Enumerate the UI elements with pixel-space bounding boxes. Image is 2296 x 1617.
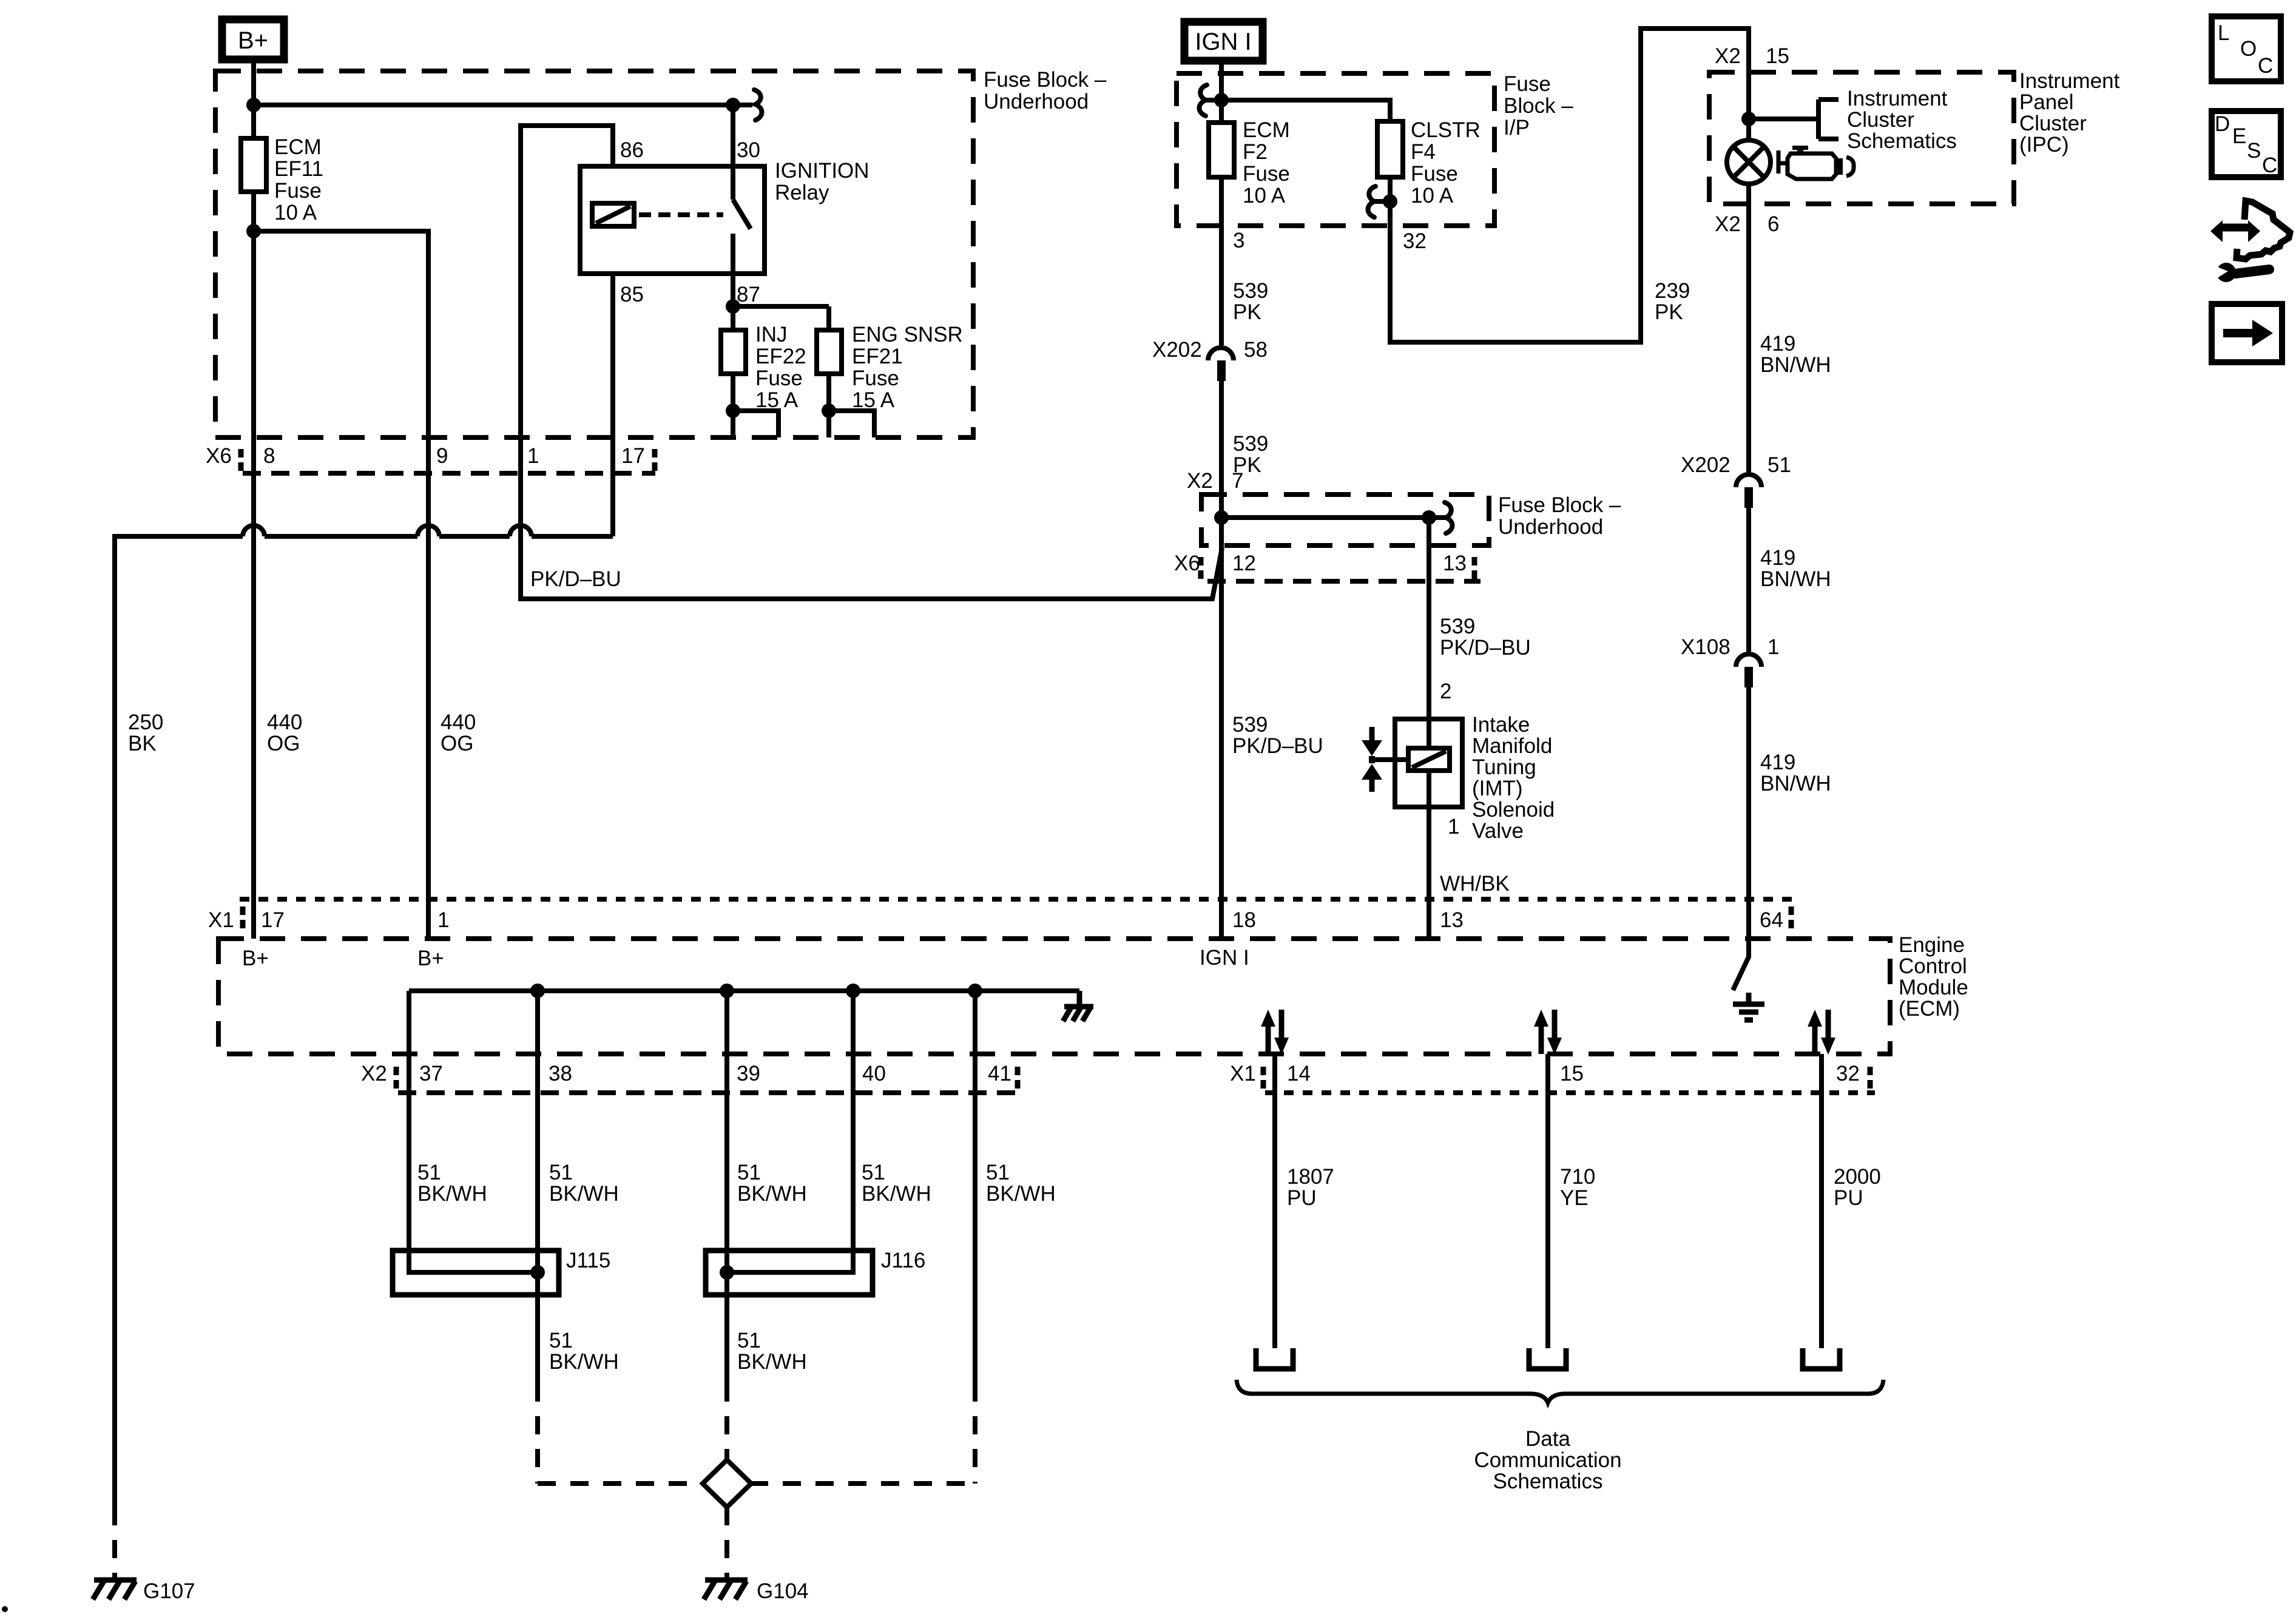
svg-text:15: 15 (1560, 1062, 1584, 1085)
svg-text:1: 1 (1768, 635, 1779, 659)
node IPC tap (1741, 112, 1756, 126)
svg-text:Schematics: Schematics (1847, 129, 1957, 153)
svg-text:O: O (2240, 37, 2257, 61)
svg-text:IGNITION: IGNITION (775, 159, 869, 183)
svg-text:B+: B+ (417, 947, 444, 970)
svg-text:15: 15 (1766, 44, 1789, 68)
svg-text:X202: X202 (1681, 453, 1730, 477)
svg-text:51: 51 (549, 1329, 573, 1352)
svg-text:Fuse: Fuse (1411, 162, 1458, 186)
page dot (2, 1606, 8, 1612)
wire X6-13 to IMT (1427, 518, 1431, 748)
svg-text:L: L (2218, 21, 2229, 45)
svg-text:3: 3 (1233, 229, 1244, 252)
connector X6 row 2 (1207, 579, 1481, 584)
svg-text:10 A: 10 A (1243, 184, 1286, 208)
svg-text:2: 2 (1440, 680, 1451, 703)
svg-text:BN/WH: BN/WH (1760, 772, 1831, 795)
svg-text:Engine: Engine (1899, 933, 1965, 957)
fuse block internal connection curl F4 (1372, 199, 1390, 204)
svg-text:OG: OG (441, 732, 473, 755)
svg-text:440: 440 (267, 711, 302, 734)
ECM IO arrows 32 (1815, 1010, 1828, 1054)
svg-text:32: 32 (1403, 229, 1427, 253)
svg-text:Fuse: Fuse (1243, 162, 1290, 186)
ground G107 (93, 1580, 137, 1599)
wire bus to 38 (535, 991, 540, 1383)
svg-text:37: 37 (419, 1062, 443, 1085)
svg-text:X2: X2 (1715, 44, 1741, 68)
svg-text:419: 419 (1760, 332, 1795, 356)
svg-text:1: 1 (437, 908, 449, 932)
svg-text:64: 64 (1760, 908, 1783, 932)
ECM IO arrows 15 (1541, 1010, 1555, 1054)
dashed ground leads (538, 1383, 975, 1579)
svg-text:YE: YE (1560, 1186, 1589, 1210)
wire fb2 bus (1221, 515, 1448, 520)
hop over X6-9 wire (417, 525, 439, 536)
svg-text:Fuse: Fuse (755, 366, 803, 390)
svg-text:Intake: Intake (1472, 713, 1530, 737)
svg-text:X108: X108 (1681, 635, 1730, 659)
svg-text:39: 39 (737, 1062, 760, 1085)
IMT valve symbol (1369, 727, 1375, 792)
power symbol IGN I (1184, 22, 1263, 61)
svg-text:BK/WH: BK/WH (417, 1182, 487, 1206)
svg-text:BK/WH: BK/WH (862, 1182, 931, 1206)
svg-text:Cluster: Cluster (2019, 112, 2087, 135)
ground G104 (704, 1580, 748, 1599)
svg-text:51: 51 (737, 1161, 761, 1184)
wire into IPC (1746, 72, 1751, 140)
svg-text:G104: G104 (757, 1579, 809, 1603)
svg-text:BK/WH: BK/WH (549, 1182, 619, 1206)
node 87 split (726, 299, 740, 314)
ECM box (218, 939, 1890, 1054)
svg-text:EF11: EF11 (274, 157, 323, 181)
SECTION: right icons (2210, 16, 2290, 362)
svg-text:40: 40 (862, 1062, 886, 1085)
svg-text:10 A: 10 A (1411, 184, 1454, 208)
wire 419 BN/WH mid (1746, 508, 1751, 652)
ECM IO arrows 14 (1268, 1010, 1281, 1054)
svg-text:PK: PK (1655, 300, 1683, 324)
svg-text:(ECM): (ECM) (1899, 997, 1960, 1021)
ECM internal switch to ground (1733, 939, 1749, 990)
svg-text:Fuse: Fuse (274, 179, 322, 203)
svg-text:B+: B+ (238, 27, 268, 54)
SECTION: middle fuse block IP (1152, 22, 1749, 970)
svg-text:Instrument: Instrument (2019, 69, 2120, 93)
svg-text:1807: 1807 (1287, 1165, 1334, 1189)
svg-text:51: 51 (417, 1161, 441, 1184)
SECTION: top-left fuse block underhood (93, 19, 1222, 1603)
svg-text:BK: BK (128, 732, 157, 755)
node bus 40 (846, 984, 860, 998)
svg-text:CLSTR: CLSTR (1411, 118, 1481, 142)
svg-text:X2: X2 (1715, 212, 1741, 236)
svg-text:J115: J115 (566, 1249, 610, 1272)
relay coil (592, 203, 634, 226)
svg-text:Fuse: Fuse (1504, 72, 1551, 96)
svg-text:(IMT): (IMT) (1472, 777, 1523, 800)
svg-text:J116: J116 (881, 1249, 925, 1272)
svg-text:EF21: EF21 (852, 345, 903, 368)
svg-text:239: 239 (1655, 279, 1690, 303)
wire F4 out (1390, 29, 1749, 342)
connector X6 row 1 (243, 471, 655, 476)
svg-text:PK: PK (1233, 300, 1261, 324)
svg-text:F2: F2 (1243, 140, 1268, 164)
wire IGN bus to F4 (1221, 100, 1390, 121)
node relay 30 tap (726, 98, 740, 112)
svg-text:X6: X6 (1174, 552, 1200, 575)
relay IGNITION box (580, 166, 765, 274)
svg-text:F4: F4 (1411, 140, 1436, 164)
svg-text:58: 58 (1244, 338, 1268, 362)
relay switch blade (733, 200, 751, 229)
svg-text:PK/D–BU: PK/D–BU (1232, 734, 1323, 758)
svg-text:EF22: EF22 (755, 345, 806, 368)
wire pin30 stem (731, 105, 735, 200)
node bus 38 (530, 984, 545, 998)
svg-text:Tuning: Tuning (1472, 755, 1536, 779)
svg-text:Module: Module (1899, 976, 1968, 999)
svg-text:BK/WH: BK/WH (549, 1350, 619, 1374)
hop over X6-1 wire (510, 525, 532, 536)
svg-text:Valve: Valve (1472, 819, 1524, 843)
svg-text:Data: Data (1525, 1427, 1570, 1451)
svg-text:BN/WH: BN/WH (1760, 567, 1831, 591)
svg-text:PU: PU (1834, 1186, 1863, 1210)
svg-text:419: 419 (1760, 751, 1795, 774)
svg-text:I/P: I/P (1504, 116, 1530, 140)
svg-text:X2: X2 (1187, 469, 1213, 493)
svg-text:539: 539 (1233, 432, 1268, 456)
wire bus to 39 (724, 991, 729, 1383)
svg-text:B+: B+ (242, 947, 269, 970)
MIL engine icon (1778, 150, 1786, 174)
svg-text:PK/D–BU: PK/D–BU (530, 567, 621, 591)
svg-text:Instrument: Instrument (1847, 87, 1948, 110)
svg-text:Panel: Panel (2019, 90, 2074, 114)
indicator lamp (1727, 140, 1771, 184)
terminator 14 (1256, 1348, 1293, 1369)
Fuse Block - I/P box (1177, 73, 1494, 226)
svg-text:Underhood: Underhood (984, 90, 1089, 113)
svg-text:C: C (2262, 154, 2277, 177)
svg-text:BK/WH: BK/WH (737, 1182, 807, 1206)
Fuse Block - Underhood box (215, 71, 973, 437)
node EF21 out (822, 403, 836, 418)
wire J116 out (724, 1295, 729, 1383)
hop over X6-8 wire (243, 525, 265, 536)
svg-text:E: E (2232, 124, 2246, 148)
wire serial data 32 (1819, 1054, 1824, 1348)
svg-text:51: 51 (549, 1161, 573, 1184)
svg-text:PU: PU (1287, 1186, 1317, 1210)
internal chassis ground (1063, 991, 1093, 1021)
svg-text:6: 6 (1768, 212, 1779, 236)
node bus 39 (720, 984, 734, 998)
Fuse Block - Underhood box 2 (1201, 495, 1489, 545)
svg-text:539: 539 (1440, 615, 1475, 638)
svg-text:G107: G107 (143, 1579, 195, 1603)
splice J115 (393, 1251, 559, 1295)
svg-text:18: 18 (1232, 908, 1256, 932)
svg-text:ECM: ECM (274, 135, 322, 159)
fuse block internal connection curl fb2 (1445, 502, 1453, 533)
svg-text:12: 12 (1232, 552, 1256, 575)
connector X1 row bottom (1265, 1090, 1875, 1095)
svg-text:7: 7 (1232, 469, 1243, 493)
svg-text:41: 41 (988, 1062, 1011, 1085)
wire IPC lamp out (1746, 184, 1751, 472)
svg-text:S: S (2247, 139, 2261, 163)
svg-text:87: 87 (737, 283, 760, 306)
harness routing icon (2237, 201, 2290, 259)
SECTION: ECM + bottom (2, 899, 1968, 1612)
wire bus to 40 (851, 991, 856, 1272)
svg-text:ENG SNSR: ENG SNSR (852, 323, 963, 346)
svg-text:85: 85 (620, 283, 644, 306)
reference bracket to cluster schematics (1749, 100, 1838, 139)
svg-text:WH/BK: WH/BK (1440, 872, 1510, 896)
svg-text:(IPC): (IPC) (2019, 133, 2069, 157)
svg-text:Control: Control (1899, 954, 1967, 978)
wire bus to 41 (973, 991, 977, 1383)
svg-text:539: 539 (1232, 713, 1268, 737)
DESC legend box (2212, 111, 2281, 177)
ECM internal ground (1733, 993, 1764, 1020)
ECM ground bus (409, 991, 1079, 1251)
connector X2 row bottom (398, 1090, 1019, 1095)
wire relay 85 to X6-17 (610, 274, 615, 536)
svg-text:51: 51 (737, 1329, 761, 1352)
fuse F2 (1209, 123, 1234, 177)
wire 419 BN/WH lower (1746, 687, 1751, 939)
node F4 curl tap (1383, 194, 1397, 209)
svg-text:IGN I: IGN I (1200, 946, 1249, 970)
fuse F4 (1377, 121, 1403, 177)
node B+ bus (246, 98, 261, 112)
wire EF21 out (829, 374, 874, 437)
svg-text:250: 250 (128, 711, 163, 734)
IMT coil (1408, 748, 1450, 771)
wire ground bus 85 path with hops (115, 536, 613, 1507)
fuse EF22 (721, 330, 746, 374)
svg-text:2000: 2000 (1834, 1165, 1881, 1189)
terminator 32 (1803, 1348, 1840, 1369)
fuse block internal connection curl (1203, 98, 1221, 103)
svg-text:17: 17 (261, 908, 285, 932)
svg-text:BK/WH: BK/WH (986, 1182, 1056, 1206)
svg-text:10 A: 10 A (274, 201, 317, 224)
node EF22 out (726, 403, 740, 418)
svg-text:Block –: Block – (1504, 94, 1573, 118)
wire B+ bus to relay 30 (254, 103, 752, 107)
svg-text:C: C (2258, 54, 2273, 78)
svg-text:PK/D–BU: PK/D–BU (1440, 636, 1531, 660)
svg-text:Solenoid: Solenoid (1472, 798, 1555, 822)
svg-text:Fuse Block –: Fuse Block – (984, 68, 1107, 92)
svg-text:Cluster: Cluster (1847, 108, 1914, 132)
SECTION: right IPC (1681, 44, 2120, 1020)
terminator 15 (1529, 1348, 1566, 1369)
wire IGN I feed (1219, 61, 1224, 123)
power symbol B+ (222, 19, 284, 59)
wire B+ feed down (251, 59, 256, 138)
svg-text:X6: X6 (206, 444, 232, 468)
svg-text:INJ: INJ (755, 323, 788, 346)
svg-text:38: 38 (549, 1062, 572, 1085)
svg-text:14: 14 (1287, 1062, 1311, 1085)
svg-text:Fuse Block –: Fuse Block – (1498, 493, 1621, 517)
svg-text:419: 419 (1760, 546, 1795, 570)
svg-text:OG: OG (267, 732, 300, 755)
wire serial data 14 (1272, 1054, 1277, 1348)
svg-text:1: 1 (527, 444, 539, 468)
node EF11 out (246, 224, 261, 238)
connector X1 row top (240, 897, 1792, 902)
svg-text:51: 51 (1768, 453, 1791, 477)
node bus 41 (968, 984, 982, 998)
wire serial data 15 (1545, 1054, 1550, 1348)
svg-text:IGN I: IGN I (1195, 29, 1251, 55)
svg-text:Communication: Communication (1474, 1448, 1621, 1472)
fuse block internal connection curl (754, 90, 762, 120)
svg-text:8: 8 (263, 444, 275, 468)
svg-text:Schematics: Schematics (1493, 1470, 1603, 1493)
node fb2 left (1214, 510, 1229, 525)
LOC legend box (2212, 16, 2281, 81)
wire relay 86 to X6-1 (521, 126, 1222, 599)
wire branch to X6-9 (254, 231, 428, 939)
node IGN bus (1214, 93, 1229, 107)
wrench (2235, 269, 2269, 274)
svg-text:51: 51 (986, 1161, 1010, 1184)
svg-text:ECM: ECM (1243, 118, 1290, 142)
wire EF11 to X6-8 (251, 192, 256, 939)
fuse EF11 (241, 138, 266, 192)
brace data communication (1237, 1380, 1883, 1403)
wire J115 out (535, 1295, 540, 1383)
wire 87 to fuses (733, 306, 829, 330)
svg-text:X1: X1 (1230, 1062, 1256, 1085)
splice J116 (706, 1251, 873, 1295)
wire pin87 stem (731, 234, 735, 306)
svg-text:710: 710 (1560, 1165, 1595, 1189)
svg-text:Relay: Relay (775, 181, 829, 204)
wire F2 out (1219, 177, 1224, 345)
svg-text:32: 32 (1836, 1062, 1860, 1085)
fuse EF21 (817, 330, 842, 374)
forward arrow box (2212, 304, 2282, 362)
wire 539 PK lower (1219, 381, 1224, 939)
svg-text:1: 1 (1448, 815, 1459, 839)
svg-text:9: 9 (436, 444, 448, 468)
splice diamond (703, 1460, 751, 1507)
svg-text:30: 30 (737, 138, 760, 162)
svg-text:539: 539 (1233, 279, 1268, 303)
ground G107 dashed lead (112, 1507, 117, 1578)
svg-text:440: 440 (441, 711, 476, 734)
svg-text:Underhood: Underhood (1498, 515, 1603, 539)
IMT solenoid valve box (1395, 719, 1462, 807)
svg-text:51: 51 (862, 1161, 885, 1184)
svg-text:Fuse: Fuse (852, 366, 899, 390)
wire IMT out (1427, 771, 1431, 939)
svg-text:X1: X1 (208, 908, 234, 932)
svg-text:X2: X2 (361, 1062, 387, 1085)
node fb2 right (1422, 510, 1436, 525)
svg-text:X202: X202 (1152, 338, 1202, 362)
svg-text:17: 17 (621, 444, 645, 468)
IPC box (1709, 72, 2014, 204)
relay link dashed (639, 212, 723, 217)
svg-text:13: 13 (1440, 908, 1464, 932)
wire EF22 out (733, 374, 778, 437)
svg-text:BN/WH: BN/WH (1760, 353, 1831, 377)
double arrow (2221, 224, 2250, 232)
svg-text:BK/WH: BK/WH (737, 1350, 807, 1374)
svg-text:86: 86 (620, 138, 644, 162)
svg-text:Manifold: Manifold (1472, 734, 1552, 758)
svg-text:D: D (2215, 112, 2230, 136)
svg-text:13: 13 (1443, 552, 1467, 575)
